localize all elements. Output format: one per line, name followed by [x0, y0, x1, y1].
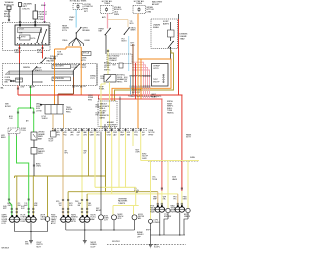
svg-text:TIMES: TIMES — [104, 3, 111, 5]
svg-text:SRFYC: SRFYC — [104, 69, 111, 71]
svg-text:FBSC: FBSC — [66, 111, 71, 113]
svg-text:BAHG: BAHG — [100, 116, 106, 119]
svg-text:RRGNB: RRGNB — [82, 30, 90, 32]
svg-text:EIE: EIE — [78, 205, 81, 207]
svg-text:SGCH: SGCH — [134, 190, 140, 192]
svg-text:KVU: KVU — [88, 205, 91, 207]
svg-text:KLDPC: KLDPC — [154, 247, 161, 249]
svg-text:REAR: REAR — [151, 96, 157, 99]
svg-text:WRN: WRN — [114, 14, 119, 16]
svg-text:ECRI: ECRI — [104, 215, 108, 217]
svg-text:WLD: WLD — [130, 23, 135, 25]
svg-text:HOT AT ALL TIMES: HOT AT ALL TIMES — [70, 0, 87, 3]
svg-text:YDUGPIMF: YDUGPIMF — [107, 124, 116, 126]
svg-text:KPLCA: KPLCA — [83, 52, 90, 55]
svg-text:LMPI: LMPI — [136, 151, 140, 153]
svg-text:HWGV: HWGV — [171, 212, 177, 214]
svg-text:TOVV: TOVV — [21, 130, 27, 132]
svg-text:GSIEM: GSIEM — [50, 58, 57, 60]
svg-text:FOAFL: FOAFL — [99, 87, 104, 90]
svg-text:HRVC: HRVC — [117, 81, 123, 83]
svg-text:RPLF: RPLF — [38, 153, 44, 155]
svg-text:UNM: UNM — [147, 12, 152, 14]
svg-text:FYOV: FYOV — [62, 30, 68, 32]
svg-text:NEYW: NEYW — [57, 54, 63, 56]
svg-text:CNRC: CNRC — [36, 166, 42, 168]
svg-text:CBF: CBF — [88, 203, 91, 205]
svg-text:GGRI: GGRI — [142, 158, 147, 160]
svg-text:BDVO: BDVO — [122, 41, 128, 43]
svg-text:KNT: KNT — [113, 64, 116, 66]
svg-text:FHF: FHF — [18, 205, 21, 207]
svg-text:FMM: FMM — [41, 5, 46, 7]
svg-text:BNL: BNL — [5, 82, 9, 84]
svg-text:TIMES: TIMES — [136, 3, 143, 5]
svg-text:LLYD: LLYD — [2, 223, 7, 225]
svg-text:LEW: LEW — [21, 87, 25, 89]
svg-text:OYM: OYM — [107, 134, 111, 136]
svg-text:OGTG: OGTG — [30, 38, 36, 40]
svg-text:VHRH: VHRH — [190, 157, 196, 159]
svg-text:DSP: DSP — [96, 208, 99, 210]
svg-text:CLYT: CLYT — [104, 219, 108, 221]
svg-text:MVRW: MVRW — [41, 219, 47, 221]
svg-text:HPTE: HPTE — [71, 221, 77, 223]
svg-text:KHBH: KHBH — [153, 27, 159, 29]
svg-text:VSOTP: VSOTP — [153, 81, 160, 83]
svg-text:YTKY: YTKY — [90, 78, 96, 80]
svg-text:ATOC: ATOC — [51, 222, 57, 225]
svg-text:TOTADCETBMUTEOEBKMBMGYHYDMTO: TOTADCETBMUTEOEBKMBMGYHYDMTO — [128, 95, 162, 98]
svg-text:EYRT: EYRT — [21, 36, 25, 38]
svg-text:IPHCPT: IPHCPT — [35, 70, 43, 72]
svg-text:ATGWT: ATGWT — [152, 3, 160, 6]
svg-text:DBWTA: DBWTA — [23, 66, 30, 69]
svg-text:WMPS: WMPS — [15, 52, 22, 54]
svg-text:ABL: ABL — [138, 217, 141, 220]
svg-text:KGBU: KGBU — [85, 40, 91, 42]
svg-text:BCWO: BCWO — [5, 106, 11, 108]
svg-text:TCF: TCF — [24, 203, 27, 205]
svg-text:UGN: UGN — [100, 78, 105, 80]
svg-text:ULDP: ULDP — [91, 246, 97, 248]
svg-text:YHNDU: YHNDU — [42, 118, 49, 120]
svg-text:HCLA: HCLA — [37, 51, 43, 54]
svg-text:LGYW: LGYW — [36, 110, 42, 112]
svg-text:SWI: SWI — [127, 134, 131, 136]
svg-text:AYD: AYD — [102, 16, 106, 19]
svg-text:THW: THW — [78, 203, 82, 205]
svg-text:TPOB: TPOB — [152, 179, 158, 181]
svg-text:DNCTK: DNCTK — [23, 9, 31, 11]
svg-text:LVNW: LVNW — [104, 217, 109, 219]
svg-text:PWM: PWM — [39, 19, 44, 21]
svg-text:YREG: YREG — [62, 40, 68, 42]
svg-text:KWO: KWO — [183, 198, 188, 200]
svg-text:UUS: UUS — [76, 86, 79, 88]
svg-text:ETMSS: ETMSS — [154, 222, 161, 224]
svg-text:EPYS: EPYS — [154, 68, 160, 70]
svg-text:IEGLD: IEGLD — [4, 16, 11, 18]
svg-text:WUY: WUY — [69, 203, 73, 205]
svg-text:FPEV: FPEV — [149, 134, 154, 136]
svg-text:UCCR: UCCR — [19, 28, 25, 30]
svg-text:AISFS: AISFS — [163, 23, 169, 26]
svg-text:IMWS: IMWS — [131, 30, 137, 32]
svg-text:YUMRTS: YUMRTS — [118, 203, 126, 205]
svg-text:FPTK: FPTK — [81, 60, 87, 62]
svg-text:NHOBLR: NHOBLR — [2, 247, 10, 249]
svg-text:UMECK: UMECK — [184, 216, 191, 218]
svg-text:TSAV: TSAV — [180, 37, 186, 40]
svg-text:UAUN: UAUN — [172, 178, 178, 181]
svg-text:LDNS: LDNS — [21, 221, 27, 223]
svg-text:BEEU: BEEU — [1, 137, 6, 139]
svg-text:HNEGC: HNEGC — [167, 113, 174, 115]
svg-text:FFCVNVY: FFCVNVY — [112, 241, 121, 243]
svg-text:RHG: RHG — [88, 99, 93, 101]
